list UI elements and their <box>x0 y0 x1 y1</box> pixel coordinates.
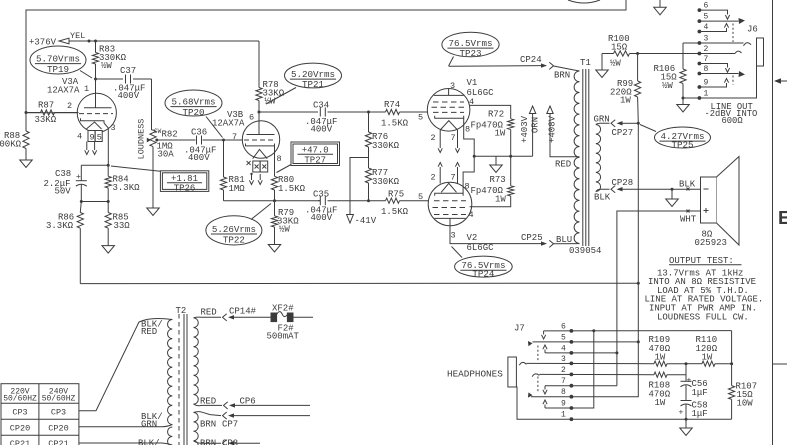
wire J6 pin3 <box>683 42 744 44</box>
svg-text:GRN: GRN <box>141 420 157 430</box>
resistor R75 <box>386 198 400 203</box>
resistor R106 <box>682 43 684 69</box>
test point TP19 <box>30 46 86 74</box>
resistor R81 <box>223 140 225 177</box>
svg-text:3: 3 <box>111 123 116 133</box>
ground R79 <box>268 245 281 253</box>
svg-text:9: 9 <box>90 133 95 143</box>
wire R100 to J6 pin2 <box>638 53 735 55</box>
svg-text:J7: J7 <box>514 324 525 334</box>
svg-text:-41V: -41V <box>355 216 377 226</box>
resistor R77 <box>365 168 371 183</box>
wire V1 cathode to rail <box>464 118 475 156</box>
wire cathode rail V3B <box>224 200 321 202</box>
svg-text:T2: T2 <box>176 306 187 316</box>
wire J7 sleeve pin1 <box>516 387 686 419</box>
svg-text:400V: 400V <box>311 213 333 223</box>
resistor R100 <box>614 51 630 56</box>
svg-text:TP19: TP19 <box>47 64 69 75</box>
wire J7 pin2 ring <box>532 374 539 377</box>
ground speaker return <box>671 188 674 191</box>
wire J6 pin1 sleeve <box>683 66 757 98</box>
svg-text:5.70Vrms: 5.70Vrms <box>36 54 80 65</box>
svg-text:R75: R75 <box>388 190 404 200</box>
svg-text:9: 9 <box>704 79 709 88</box>
svg-text:CP6: CP6 <box>240 397 256 407</box>
wire V1 plate to CP24 <box>449 65 541 68</box>
svg-text:1.5KΩ: 1.5KΩ <box>278 184 306 194</box>
ground attenuator <box>685 419 687 428</box>
capacitor C56 <box>685 364 687 382</box>
test point TP27 box <box>291 142 340 166</box>
capacitor C35 <box>318 200 320 202</box>
svg-text:RED: RED <box>201 308 217 318</box>
capacitor C37 <box>96 78 124 80</box>
svg-text:6: 6 <box>249 113 254 123</box>
wire WHT to J7 <box>617 211 701 353</box>
wire J6 pin5 <box>699 20 738 22</box>
svg-text:4: 4 <box>77 132 82 142</box>
resistor R107 <box>731 331 733 386</box>
wire CP20 to T2 primary tap <box>79 425 172 427</box>
svg-text:15Ω: 15Ω <box>611 43 628 53</box>
svg-text:CP27: CP27 <box>612 128 634 138</box>
wire J7 pin3 tip <box>519 362 526 365</box>
svg-text:12AX7A: 12AX7A <box>212 119 245 129</box>
svg-text:2: 2 <box>431 133 436 143</box>
wire right border <box>772 0 774 445</box>
svg-text:1: 1 <box>84 84 89 94</box>
svg-text:LOUDNESS FULL CW.: LOUDNESS FULL CW. <box>657 312 749 322</box>
svg-text:C38: C38 <box>55 169 71 179</box>
svg-text:+408V: +408V <box>548 115 558 143</box>
svg-text:7: 7 <box>561 377 566 386</box>
svg-text:400V: 400V <box>118 91 140 101</box>
svg-text:8: 8 <box>277 154 282 164</box>
svg-text:500mAT: 500mAT <box>267 332 300 342</box>
svg-text:TP21: TP21 <box>302 79 325 90</box>
svg-text:3.3KΩ: 3.3KΩ <box>113 183 141 193</box>
svg-text:LOUDNESS: LOUDNESS <box>137 119 147 160</box>
test point TP24 <box>455 256 513 277</box>
svg-text:8: 8 <box>704 65 709 74</box>
svg-text:1W: 1W <box>655 398 666 408</box>
resistor R88 <box>23 131 29 149</box>
svg-text:10W: 10W <box>737 399 754 409</box>
svg-text:3: 3 <box>451 231 456 241</box>
wire CP21 to T2 <box>79 443 172 445</box>
svg-text:½W: ½W <box>610 59 621 69</box>
svg-text:12AX7A: 12AX7A <box>47 86 80 96</box>
svg-text:600Ω: 600Ω <box>722 116 744 126</box>
connector CP27 <box>596 123 610 124</box>
svg-text:½W: ½W <box>662 81 673 91</box>
resistor R85 <box>105 213 111 229</box>
svg-text:BRN: BRN <box>554 71 570 81</box>
svg-text:7: 7 <box>451 173 456 183</box>
node -41V supply <box>350 158 369 215</box>
svg-text:BLK/: BLK/ <box>138 439 160 445</box>
resistor R86 <box>77 213 83 229</box>
svg-text:R82: R82 <box>162 130 178 140</box>
wire frame top <box>26 0 626 131</box>
svg-text:8: 8 <box>561 388 566 397</box>
svg-text:1W: 1W <box>495 129 506 139</box>
node V3B heater pins <box>253 161 260 172</box>
svg-text:R74: R74 <box>384 100 400 110</box>
svg-text:YEL: YEL <box>70 31 85 41</box>
svg-text:CP3: CP3 <box>51 407 66 417</box>
svg-text:TP23: TP23 <box>459 48 481 59</box>
svg-text:J6: J6 <box>747 25 758 35</box>
svg-text:3.3KΩ: 3.3KΩ <box>46 221 74 231</box>
svg-text:1: 1 <box>704 90 709 99</box>
svg-text:2: 2 <box>704 45 709 54</box>
resistor R87 <box>41 110 55 115</box>
ground J6 top <box>659 0 661 7</box>
svg-text:TP26: TP26 <box>174 183 196 193</box>
svg-text:BRN: BRN <box>200 420 216 430</box>
wire J6 pin7 <box>699 64 727 68</box>
svg-text:330KΩ: 330KΩ <box>372 141 400 151</box>
svg-text:50/60HZ: 50/60HZ <box>42 395 76 404</box>
svg-text:C37: C37 <box>120 66 136 76</box>
svg-text:RED: RED <box>200 397 216 407</box>
test point TP20 <box>165 90 222 116</box>
svg-text:TP25: TP25 <box>671 139 693 150</box>
connector CP6 <box>194 404 223 406</box>
svg-text:2: 2 <box>561 366 566 375</box>
wire feedback rail <box>80 282 638 284</box>
node +408V <box>550 114 580 157</box>
svg-text:1μF: 1μF <box>692 388 708 398</box>
node line voltage table <box>1 384 79 445</box>
svg-text:33Ω: 33Ω <box>114 221 131 231</box>
svg-text:WHT: WHT <box>680 215 697 225</box>
transistor V2 6L6GC <box>428 182 472 226</box>
svg-text:C34: C34 <box>313 101 329 111</box>
wire J7 pin5 <box>533 341 639 343</box>
speaker 8ohm <box>701 177 717 223</box>
svg-text:33KΩ: 33KΩ <box>35 115 57 125</box>
svg-text:1MΩ: 1MΩ <box>229 184 246 194</box>
svg-text:R73: R73 <box>490 175 506 185</box>
svg-text:8: 8 <box>465 182 470 192</box>
wire +376V rail <box>69 40 259 42</box>
svg-text:5.26Vrms: 5.26Vrms <box>212 224 256 235</box>
svg-text:1W: 1W <box>495 195 506 205</box>
wire J6 pin6 <box>699 10 727 14</box>
svg-text:CP20: CP20 <box>10 423 30 433</box>
svg-text:1W: 1W <box>620 96 631 106</box>
svg-text:+: + <box>76 173 81 182</box>
resistor R72 <box>470 105 511 118</box>
svg-text:4: 4 <box>704 23 709 32</box>
resistor R80 <box>271 176 277 190</box>
wire J7 pin8 <box>531 396 571 398</box>
wire J6 pin2 contact <box>735 51 742 53</box>
svg-text:RED: RED <box>555 160 571 170</box>
svg-text:BRN: BRN <box>200 439 216 445</box>
wire J7 pin7 <box>545 353 617 386</box>
svg-text:V1: V1 <box>467 78 478 88</box>
capacitor C58 <box>681 400 692 402</box>
resistor R74 <box>386 109 400 114</box>
test point TP22 <box>206 216 262 245</box>
svg-text:7: 7 <box>704 55 709 64</box>
svg-text:9: 9 <box>561 400 566 409</box>
svg-text:GRN: GRN <box>594 115 610 125</box>
ground R106 <box>677 105 690 113</box>
ground R88 <box>20 160 33 168</box>
svg-text:400V: 400V <box>311 125 333 135</box>
wire J7 pin6 rail <box>544 330 732 332</box>
svg-text:1μF: 1μF <box>692 409 708 419</box>
svg-text:CP21: CP21 <box>48 439 68 445</box>
svg-text:RED: RED <box>141 327 157 337</box>
svg-text:BLK: BLK <box>594 193 611 203</box>
svg-text:6: 6 <box>704 2 709 11</box>
wire V2 plate to CP25 <box>450 218 541 243</box>
connector CP14# fuse feed <box>194 316 222 319</box>
resistor R76 <box>368 112 370 132</box>
svg-text:C35: C35 <box>313 190 329 200</box>
svg-text:1W: 1W <box>655 353 666 363</box>
svg-text:30A: 30A <box>158 150 175 160</box>
svg-text:1.5KΩ: 1.5KΩ <box>381 207 409 217</box>
node +403V <box>532 114 534 157</box>
connector CP8 <box>194 441 222 443</box>
resistor R108 <box>654 372 667 377</box>
svg-text:CW: CW <box>154 128 162 135</box>
svg-text:7: 7 <box>451 133 456 143</box>
svg-text:R72: R72 <box>488 110 504 120</box>
connector CP7 <box>194 412 222 416</box>
wire J7 pin9 <box>545 407 571 409</box>
wire grid V3B <box>224 139 244 141</box>
svg-text:CP20: CP20 <box>48 423 68 433</box>
svg-text:1.5KΩ: 1.5KΩ <box>381 119 409 129</box>
svg-text:6: 6 <box>561 322 566 331</box>
wire J6 pin8 <box>699 73 738 75</box>
svg-text:V2: V2 <box>467 233 478 243</box>
svg-text:+: + <box>679 409 684 418</box>
svg-text:50V: 50V <box>55 187 72 197</box>
svg-text:1: 1 <box>561 411 566 420</box>
svg-text:50/60HZ: 50/60HZ <box>3 395 37 404</box>
svg-text:½W: ½W <box>279 225 290 235</box>
svg-text:CP21: CP21 <box>10 439 30 445</box>
wire cathode V3A <box>81 118 105 123</box>
resistor R73 <box>508 186 514 196</box>
test point TP26 box <box>111 166 160 171</box>
svg-text:100KΩ: 100KΩ <box>0 140 22 150</box>
ground R85 <box>102 246 115 254</box>
wire cathode node to C38 <box>81 164 108 166</box>
wire J6 pin4 <box>699 28 726 32</box>
svg-text:2: 2 <box>431 173 436 183</box>
capacitor C36 <box>157 139 196 141</box>
svg-text:330KΩ: 330KΩ <box>372 177 400 187</box>
ground R82 <box>147 208 160 216</box>
svg-text:TP24: TP24 <box>472 268 495 279</box>
wire V2 cathode to rail <box>463 156 474 193</box>
svg-text:5.68Vrms: 5.68Vrms <box>171 97 215 108</box>
svg-text:3: 3 <box>561 355 566 364</box>
svg-text:5: 5 <box>561 333 566 342</box>
svg-text:6L6GC: 6L6GC <box>467 243 495 253</box>
svg-text:8: 8 <box>465 125 470 135</box>
resistor R83 <box>92 53 98 65</box>
ground cathode rail <box>495 156 497 165</box>
svg-text:2: 2 <box>67 101 72 111</box>
svg-text:TP22: TP22 <box>223 234 245 245</box>
resistor R99 <box>637 54 639 82</box>
svg-text:5: 5 <box>97 133 102 143</box>
svg-text:T1: T1 <box>580 58 591 68</box>
resistor R78 <box>258 41 260 88</box>
svg-text:TP27: TP27 <box>304 155 326 165</box>
svg-text:5: 5 <box>418 192 423 202</box>
svg-text:½W: ½W <box>101 61 112 71</box>
svg-text:5: 5 <box>704 13 709 22</box>
svg-text:BLU: BLU <box>556 235 572 245</box>
connector CP28 <box>596 189 610 191</box>
wire J7 bus 6-9 <box>571 331 593 408</box>
svg-text:E: E <box>778 208 787 230</box>
wire cathode bottom rail <box>81 201 108 203</box>
resistor R109 <box>654 361 667 366</box>
wire right edge tick <box>773 363 787 365</box>
svg-text:400V: 400V <box>188 153 210 163</box>
node V2 heater pins 2 7 <box>439 167 441 184</box>
capacitor C38 <box>80 165 82 180</box>
svg-text:039054: 039054 <box>569 246 601 256</box>
capacitor C34 <box>259 111 318 113</box>
svg-text:XF2#: XF2# <box>272 304 294 314</box>
svg-text:R87: R87 <box>38 101 54 111</box>
svg-text:HEADPHONES: HEADPHONES <box>447 369 503 380</box>
test point TP21 <box>285 63 342 88</box>
svg-text:025923: 025923 <box>695 238 727 248</box>
resistor R79 <box>274 201 276 216</box>
wire J7 pin4 <box>545 352 571 354</box>
svg-text:3: 3 <box>704 35 709 44</box>
node sheet-arrow right edge <box>774 78 781 84</box>
svg-text:4: 4 <box>561 344 566 353</box>
test point TP25 <box>655 127 711 148</box>
svg-text:7: 7 <box>232 132 237 142</box>
svg-text:CP28: CP28 <box>612 178 634 188</box>
svg-text:CP24: CP24 <box>520 55 542 65</box>
test point partial top <box>568 0 600 3</box>
svg-text:+403V: +403V <box>520 115 530 143</box>
wire C37 to loudness pot <box>151 79 153 130</box>
wire GRN 8ohm tap down to J7 <box>637 123 639 342</box>
wire cathode-screen rail <box>474 155 532 157</box>
svg-text:TP20: TP20 <box>182 107 204 118</box>
svg-text:1W: 1W <box>702 353 713 363</box>
svg-text:CP3: CP3 <box>12 407 27 417</box>
test point TP23 <box>442 32 499 57</box>
resistor R110 <box>702 361 715 366</box>
svg-text:CP7: CP7 <box>222 420 238 430</box>
svg-text:CP14#: CP14# <box>229 307 257 317</box>
wire V2 pin4 screen <box>469 206 471 208</box>
svg-text:ORN: ORN <box>531 117 541 133</box>
fuse F2# XF2# <box>271 313 277 322</box>
svg-text:4: 4 <box>469 210 474 220</box>
svg-text:5: 5 <box>418 113 423 123</box>
svg-text:CP8: CP8 <box>222 439 238 445</box>
wire CP3 to T2 primary <box>79 318 172 410</box>
svg-text:CP25: CP25 <box>521 233 543 243</box>
svg-text:C36: C36 <box>191 128 207 138</box>
wire J6 pin9 <box>699 83 726 87</box>
ground R100 <box>596 70 609 78</box>
resistor R84 <box>105 176 111 188</box>
